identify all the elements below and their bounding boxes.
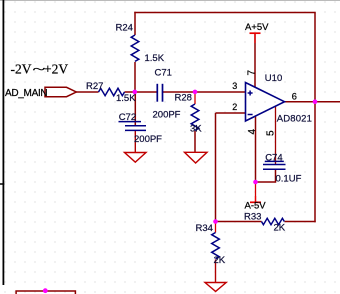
wire: pin 4 down bbox=[255, 116, 257, 182]
power A+5V bar bbox=[250, 32, 261, 34]
wire: R34 top lead bbox=[215, 222, 217, 233]
junction R33/R34 node bbox=[213, 219, 218, 224]
svg-text:-2V: -2V bbox=[11, 61, 32, 76]
sheet top edge line bbox=[0, 0, 340, 2]
sheet left border bbox=[2, 0, 4, 285]
wire: pin 4 node to A-5V bbox=[255, 182, 257, 202]
wire: C71 to node B bbox=[163, 91, 195, 93]
ground under R28 bbox=[185, 152, 208, 163]
svg-text:C71: C71 bbox=[155, 68, 172, 79]
wire: op-amp pin 2 to feedback column bbox=[216, 112, 246, 114]
wire: top feedback rail bbox=[134, 12, 315, 14]
svg-text:2: 2 bbox=[232, 102, 237, 112]
wire: R24 top to top rail bbox=[134, 12, 136, 35]
label -2V~+2V bbox=[11, 61, 69, 77]
wire: node B down to R28 bbox=[194, 92, 196, 104]
wire: inverting column down bbox=[215, 113, 217, 222]
svg-text:R24: R24 bbox=[116, 23, 133, 34]
capacitor C72 bbox=[119, 122, 147, 131]
wire: C74 bottom stub bbox=[275, 169, 277, 183]
svg-text:3: 3 bbox=[232, 81, 237, 91]
junction node A bbox=[133, 90, 138, 95]
wire: C74 to pin4 node bbox=[256, 181, 276, 183]
svg-text:5: 5 bbox=[266, 130, 277, 136]
svg-text:C74: C74 bbox=[265, 153, 282, 164]
svg-text:2K: 2K bbox=[274, 223, 286, 234]
wire: right vertical feedback bbox=[314, 13, 316, 223]
junction pin4/C74 node bbox=[253, 180, 258, 185]
wire: R34 bottom lead to ground bbox=[215, 260, 217, 283]
wire: node A up to R24 bbox=[134, 62, 136, 92]
junction node B bbox=[193, 90, 198, 95]
svg-text:0.1UF: 0.1UF bbox=[276, 174, 302, 185]
wire: R33 left lead bbox=[216, 221, 262, 223]
op-amp minus marking bbox=[248, 114, 253, 116]
svg-text:6: 6 bbox=[292, 91, 297, 102]
svg-text:200PF: 200PF bbox=[153, 110, 181, 121]
junction bottom-left net bbox=[43, 288, 48, 293]
wire: pin 5 down to C74 bbox=[275, 106, 277, 164]
ground under R34 bbox=[205, 283, 226, 292]
capacitor C74 bbox=[263, 161, 286, 169]
wire: pin 7 from A+5V bbox=[254, 33, 256, 87]
wire: C72 to ground bbox=[134, 130, 136, 152]
resistor R24 bbox=[131, 35, 139, 61]
svg-text:AD_MAIN: AD_MAIN bbox=[5, 88, 47, 99]
wire: node A down to C72 bbox=[134, 92, 136, 126]
svg-text:2K: 2K bbox=[214, 255, 226, 266]
power A-5V bar bbox=[250, 201, 261, 203]
wire: R33 right lead bbox=[285, 221, 316, 223]
wire: port to R27 bbox=[76, 91, 99, 93]
svg-text:R27: R27 bbox=[86, 81, 103, 92]
resistor R28 bbox=[191, 104, 199, 130]
svg-text:7: 7 bbox=[246, 70, 257, 76]
svg-text:1.5K: 1.5K bbox=[116, 93, 136, 104]
border tick mark bbox=[0, 183, 4, 185]
svg-text:U10: U10 bbox=[265, 73, 282, 84]
port AD_MAIN bbox=[45, 87, 76, 96]
svg-text:A+5V: A+5V bbox=[245, 22, 269, 33]
wire: output pin 6 bbox=[285, 101, 340, 103]
svg-text:+2V: +2V bbox=[44, 61, 68, 76]
ground under C72 bbox=[125, 153, 147, 163]
capacitor C71 bbox=[157, 84, 162, 102]
op-amp U10 bbox=[246, 83, 285, 122]
svg-text:1.5K: 1.5K bbox=[145, 53, 165, 64]
svg-text:4: 4 bbox=[247, 128, 258, 134]
svg-text:200PF: 200PF bbox=[134, 134, 162, 145]
svg-text:3K: 3K bbox=[190, 124, 202, 135]
svg-text:R34: R34 bbox=[196, 223, 213, 234]
svg-text:AD8021: AD8021 bbox=[277, 114, 312, 125]
svg-text:A-5V: A-5V bbox=[245, 201, 267, 212]
resistor R27 bbox=[99, 88, 125, 95]
wire: bottom left net bbox=[16, 291, 75, 294]
wire: R28 to ground bbox=[194, 131, 196, 153]
svg-text:C72: C72 bbox=[119, 112, 136, 123]
wire: node B to op-amp pin 3 bbox=[195, 91, 246, 93]
wire: R27 to node A bbox=[125, 91, 136, 93]
op-amp plus marking bbox=[248, 91, 253, 96]
resistor R34 bbox=[212, 233, 220, 259]
junction output node bbox=[313, 99, 318, 104]
svg-text:R28: R28 bbox=[175, 93, 192, 104]
svg-text:R33: R33 bbox=[244, 212, 261, 223]
wire: node A to C71 bbox=[135, 91, 157, 93]
resistor R33 bbox=[262, 218, 285, 224]
